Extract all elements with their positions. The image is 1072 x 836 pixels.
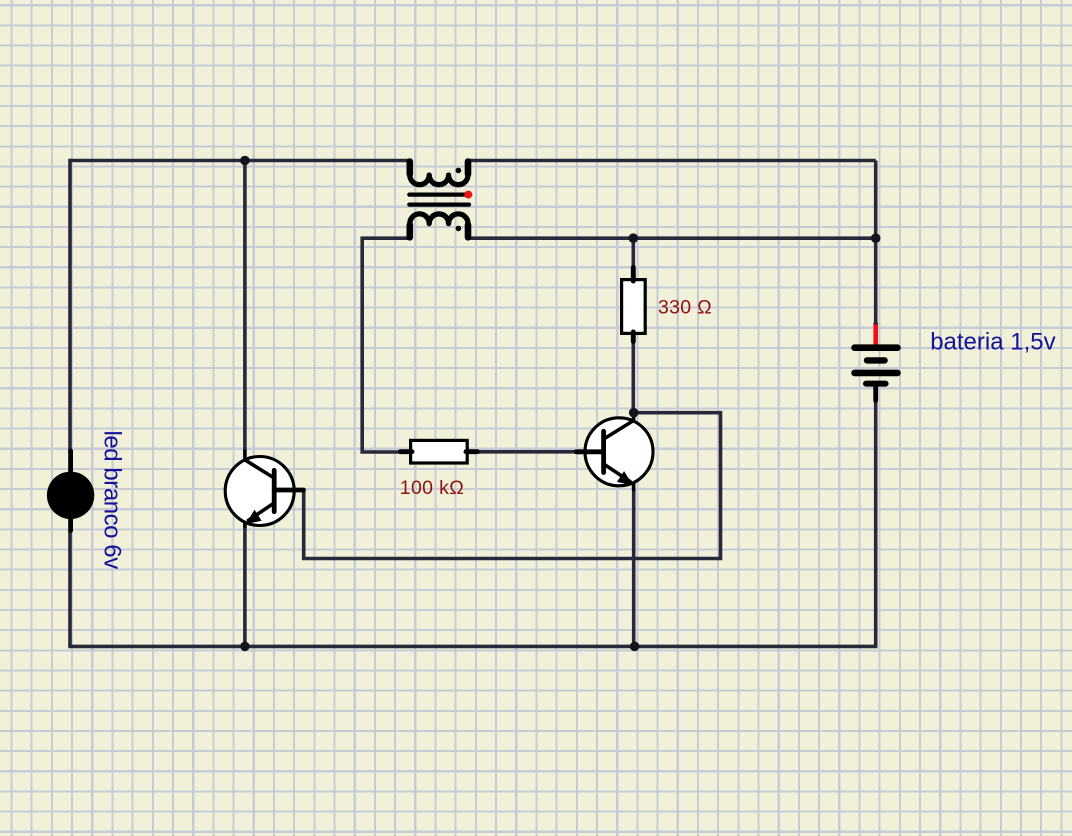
transformer T1 secondary right terminal: [465, 225, 472, 238]
svg-text:bateria 1,5v: bateria 1,5v: [930, 329, 1055, 356]
wire top rail left segment: [70, 159, 410, 163]
svg-text:100 kΩ: 100 kΩ: [400, 477, 464, 499]
transistor Q2 emitter line with arrow: [249, 504, 274, 521]
transistor Q1 collector line: [605, 412, 634, 439]
transformer T1 core bar upper: [409, 193, 469, 197]
LED D1 (filled circle): [47, 472, 94, 519]
transistor Q1 base bar: [601, 431, 606, 472]
battery B1 plate 1 (long, positive): [855, 344, 898, 351]
wire top rail right segment: [468, 159, 876, 163]
transistor Q2 base terminal: [274, 488, 303, 493]
transistor Q2 collector line: [245, 451, 273, 478]
junction node on top rail: [240, 156, 250, 166]
LED bottom terminal: [68, 516, 73, 531]
transformer T1 core bar lower: [409, 203, 469, 207]
wire left rail (top wire to LED): [68, 159, 72, 452]
transistor Q2 (left, NPN mirrored) body: [225, 457, 294, 526]
wire top junction down to left transistor collector: [243, 161, 247, 453]
junction node bottom rail left: [240, 642, 250, 652]
junction node secondary/330 resistor: [629, 233, 639, 243]
resistor 100k right terminal: [466, 449, 478, 454]
battery B1 wire end cap above red marker: [873, 321, 878, 326]
transformer T1 primary right terminal: [465, 162, 472, 175]
svg-text:330 Ω: 330 Ω: [658, 297, 712, 319]
wire bottom rail: [68, 645, 877, 649]
resistor 100k left terminal: [400, 449, 412, 454]
transistor Q1 base terminal: [576, 449, 603, 454]
wire transformer secondary right to right rail: [468, 236, 876, 240]
transformer T1 primary winding (top): [410, 163, 468, 185]
wire LED to bottom rail: [68, 530, 72, 646]
battery B1 positive red lead marker: [873, 325, 878, 346]
transformer T1 secondary winding (bottom): [410, 214, 468, 236]
resistor 330 ohm bottom terminal: [631, 332, 636, 342]
wire secondary junction down to 330 resistor: [631, 238, 635, 270]
transistor Q1 emitter line with arrow: [605, 465, 631, 482]
wire 330 resistor to collector junction: [631, 340, 635, 413]
LED top terminal: [68, 451, 73, 475]
transistor Q1 (right, NPN) body: [585, 418, 653, 486]
junction node secondary/right rail: [871, 233, 881, 243]
svg-text:led branco 6v: led branco 6v: [99, 431, 126, 570]
wire left transistor emitter to bottom rail: [243, 525, 247, 646]
resistor 330 ohm top terminal: [631, 268, 636, 282]
resistor 100k body: [411, 440, 468, 463]
transformer T1 secondary left terminal: [406, 225, 413, 238]
battery B1 bottom terminal: [873, 386, 878, 401]
wire feedback: collector junction right, down, left, up to left base: [304, 413, 721, 559]
junction node right transistor collector: [629, 408, 639, 418]
wire transformer secondary left down to 100k resistor: [362, 238, 410, 452]
transistor Q2 base bar: [272, 470, 277, 511]
wire 100k resistor to right transistor base: [477, 450, 580, 454]
battery B1 plate 4 (short, negative): [866, 381, 886, 387]
junction node bottom rail right: [630, 642, 640, 652]
battery B1 plate 3 (long): [855, 370, 898, 377]
wire right rail upper (top wire to battery): [874, 161, 878, 327]
transformer T1 core red terminal dot: [464, 191, 472, 199]
resistor 330 ohm body: [622, 280, 646, 334]
transformer T1 primary left terminal: [406, 162, 413, 175]
transformer T1 secondary phase dot: [456, 226, 462, 232]
battery B1 plate 2 (short): [867, 357, 885, 363]
wire right rail lower (battery to bottom rail): [874, 399, 878, 646]
wire right transistor emitter to bottom rail: [632, 489, 636, 646]
transformer T1 primary phase dot: [456, 168, 462, 174]
